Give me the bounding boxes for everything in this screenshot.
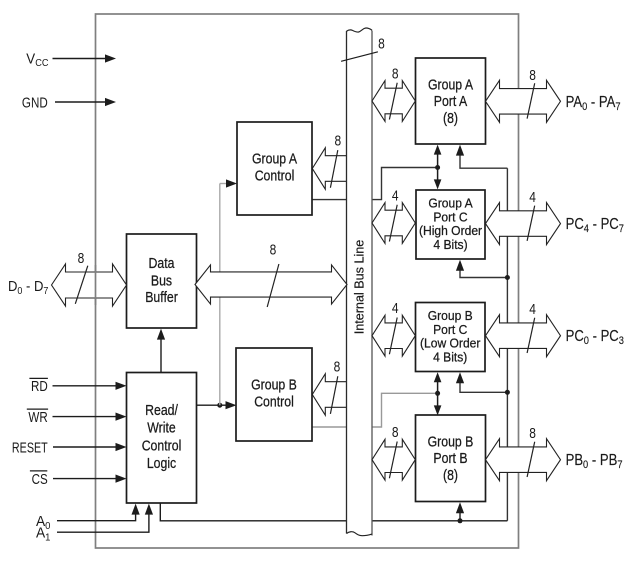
- svg-text:4: 4: [529, 301, 536, 318]
- svg-text:Port C: Port C: [433, 322, 467, 336]
- svg-text:8: 8: [392, 424, 399, 441]
- svg-text:Group A: Group A: [252, 150, 298, 166]
- svg-text:8: 8: [392, 65, 399, 82]
- svg-text:8: 8: [334, 132, 341, 149]
- svg-text:Group A: Group A: [428, 76, 474, 92]
- svg-text:4: 4: [392, 300, 399, 317]
- svg-text:CS: CS: [32, 471, 48, 488]
- svg-text:8: 8: [529, 67, 536, 84]
- svg-text:(High Order: (High Order: [419, 224, 482, 238]
- svg-text:VCC: VCC: [26, 50, 48, 69]
- svg-text:(Low Order: (Low Order: [420, 336, 480, 350]
- svg-text:Read/: Read/: [145, 402, 178, 418]
- svg-text:Control: Control: [142, 437, 182, 453]
- svg-text:4 Bits): 4 Bits): [433, 238, 467, 252]
- svg-text:RD: RD: [31, 378, 48, 395]
- svg-text:Bus: Bus: [151, 272, 172, 288]
- svg-text:Group B: Group B: [428, 309, 473, 323]
- svg-text:8: 8: [78, 250, 85, 267]
- svg-text:Control: Control: [254, 393, 294, 409]
- svg-text:(8): (8): [443, 467, 458, 483]
- svg-text:8: 8: [378, 35, 385, 52]
- svg-text:Buffer: Buffer: [145, 289, 178, 305]
- svg-text:4 Bits): 4 Bits): [433, 350, 467, 364]
- svg-text:Port B: Port B: [433, 450, 467, 466]
- svg-text:4: 4: [392, 187, 399, 204]
- svg-text:WR: WR: [28, 409, 47, 426]
- svg-text:Logic: Logic: [147, 455, 177, 471]
- svg-text:GND: GND: [22, 94, 48, 111]
- svg-text:Control: Control: [255, 167, 295, 183]
- svg-text:Port C: Port C: [433, 210, 467, 224]
- svg-text:PC0​ - PC3: PC0​ - PC3: [566, 328, 625, 347]
- svg-text:Write: Write: [147, 420, 176, 436]
- svg-text:PC4​ - PC7: PC4​ - PC7: [566, 216, 625, 235]
- svg-text:8: 8: [334, 358, 341, 375]
- svg-text:Group B: Group B: [428, 433, 474, 449]
- svg-text:PB0​ - PB7: PB0​ - PB7: [566, 452, 623, 471]
- svg-text:D0​ - D7: D0​ - D7: [8, 278, 48, 297]
- svg-text:Group A: Group A: [428, 196, 473, 210]
- svg-text:Port A: Port A: [434, 93, 468, 109]
- svg-text:Group B: Group B: [251, 376, 297, 392]
- svg-text:(8): (8): [443, 110, 458, 126]
- svg-text:8: 8: [270, 241, 277, 258]
- svg-text:RESET: RESET: [12, 439, 48, 456]
- svg-text:4: 4: [529, 189, 536, 206]
- svg-text:8: 8: [529, 425, 536, 442]
- svg-text:PA0​ - PA7: PA0​ - PA7: [566, 94, 621, 113]
- svg-text:Internal Bus Line: Internal Bus Line: [351, 240, 366, 335]
- svg-text:Data: Data: [149, 255, 175, 271]
